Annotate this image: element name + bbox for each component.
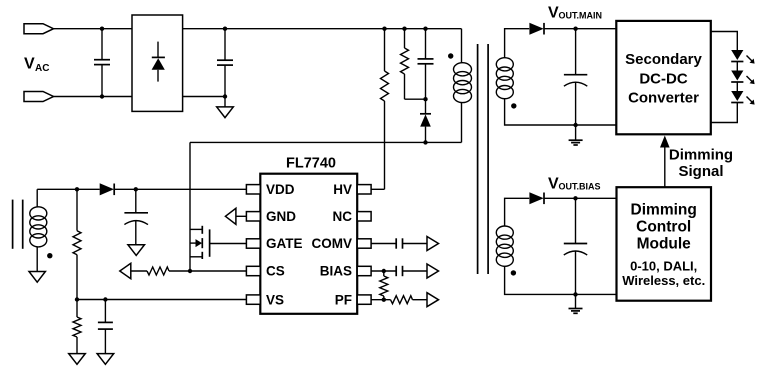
- svg-text:V: V: [24, 56, 35, 73]
- pin VS: [246, 295, 260, 304]
- node: aux phase dot: [47, 253, 52, 258]
- transformer T1 primary winding: [454, 29, 472, 143]
- terminal arrow CS (current sense input): [120, 263, 131, 278]
- wire: rectified bottom rail: [183, 96, 225, 98]
- pin HV: [357, 185, 371, 194]
- input terminal bottom: [24, 92, 54, 102]
- svg-text:VDD: VDD: [266, 182, 295, 197]
- capacitor C4 (VDD): [124, 189, 148, 244]
- ground (main output, earth): [569, 125, 583, 145]
- resistor R6 (BIAS to PF): [380, 271, 388, 300]
- pin VDD: [246, 185, 260, 194]
- wire: aux to VDD: [37, 188, 99, 190]
- wire: LED string top: [711, 32, 738, 51]
- wire bottom input: [54, 96, 133, 98]
- node: snubber RC junction: [423, 97, 427, 101]
- node: VDD cap junction: [134, 187, 138, 191]
- svg-text:Converter: Converter: [628, 90, 699, 107]
- svg-text:DC-DC: DC-DC: [639, 71, 687, 88]
- svg-text:Dimming: Dimming: [631, 202, 697, 219]
- svg-text:Dimming: Dimming: [669, 147, 733, 164]
- node: VS cap junction: [103, 297, 107, 301]
- box: Secondary DC-DC Converter: [616, 21, 711, 134]
- ground (bus): [217, 97, 234, 118]
- pin labels right: [312, 182, 353, 307]
- svg-text:AC: AC: [35, 63, 49, 74]
- svg-text:Secondary: Secondary: [625, 51, 702, 68]
- pin NC: [357, 212, 371, 221]
- input terminal top: [24, 24, 54, 34]
- svg-text:Signal: Signal: [678, 163, 723, 180]
- wire: HV to R1: [371, 188, 384, 190]
- ground (bias output, earth): [569, 294, 583, 313]
- LED D5: [731, 71, 754, 85]
- LED D6: [731, 91, 754, 105]
- svg-text:Wireless, etc.: Wireless, etc.: [622, 273, 705, 288]
- node: main output bottom junction: [573, 123, 577, 127]
- node: bus cap bottom: [223, 94, 227, 98]
- svg-text:Module: Module: [637, 236, 692, 253]
- capacitor C8 (main output): [564, 29, 587, 125]
- bridge rectifier BR1: [132, 15, 183, 111]
- pin GND: [246, 212, 260, 221]
- label VOUT.BIAS: [548, 175, 601, 192]
- capacitor C2 (bus): [217, 29, 233, 97]
- diode D1 (snubber): [420, 99, 431, 142]
- transformer T1 bias winding: [496, 198, 617, 294]
- diode D2 (VDD rectifier): [100, 183, 247, 195]
- pin BIAS: [357, 266, 371, 275]
- label Dimming Signal: [669, 147, 733, 181]
- svg-text:V: V: [548, 4, 559, 21]
- capacitor C1 (input filter): [94, 29, 110, 97]
- resistor R3 (divider upper): [73, 189, 81, 299]
- svg-text:BIAS: BIAS: [320, 264, 352, 279]
- pin COMV: [357, 239, 371, 248]
- node: R2 top: [402, 27, 406, 31]
- capacitor C3 (snubber): [418, 29, 434, 100]
- wire top input: [54, 28, 133, 30]
- node: PF junction: [382, 298, 386, 302]
- svg-text:CS: CS: [266, 264, 285, 279]
- resistor R2 (snubber): [401, 29, 426, 100]
- capacitor C6 (COMV): [371, 238, 427, 248]
- node: C3 top: [423, 27, 427, 31]
- terminal arrow BIAS: [427, 264, 439, 278]
- svg-text:VS: VS: [266, 292, 284, 307]
- node: R1 top: [382, 27, 386, 31]
- node: primary phase dot: [448, 53, 453, 58]
- resistor R5 (CS): [131, 267, 247, 275]
- ground (VS cap): [97, 354, 114, 365]
- diode D3 (main output): [529, 23, 616, 35]
- diode D7 (bias output): [529, 192, 617, 204]
- transformer T1 secondary main winding: [496, 29, 616, 125]
- svg-text:FL7740: FL7740: [286, 156, 336, 172]
- pin GATE: [246, 239, 260, 248]
- ground (divider): [69, 354, 86, 365]
- svg-text:PF: PF: [335, 292, 352, 307]
- resistor R1 (HV startup): [381, 29, 389, 190]
- node: C1 top junction: [100, 27, 104, 31]
- pin CS: [246, 266, 260, 275]
- node: secondary main phase dot: [511, 103, 516, 108]
- node: main output junction: [573, 27, 577, 31]
- capacitor C5 (VS filter): [98, 300, 113, 354]
- transformer T1 core: [478, 44, 489, 274]
- wire: [736, 82, 738, 91]
- svg-text:HV: HV: [333, 182, 352, 197]
- transformer aux core: [13, 200, 23, 249]
- node: bias output junction: [573, 196, 577, 200]
- svg-text:0-10, DALI,: 0-10, DALI,: [630, 259, 697, 274]
- node: CS / source junction: [188, 269, 192, 273]
- LED D4: [731, 50, 754, 64]
- dimming signal arrow: [660, 136, 670, 188]
- svg-text:NC: NC: [333, 209, 353, 224]
- wire: LED string bottom: [711, 103, 738, 123]
- ground (VDD cap): [128, 245, 145, 256]
- ground (aux winding): [29, 272, 45, 283]
- node: VS tap: [75, 297, 79, 301]
- node: drain rail / D1 junction: [423, 140, 427, 144]
- svg-text:GATE: GATE: [266, 236, 303, 251]
- capacitor C9 (bias output): [564, 198, 587, 294]
- svg-text:V: V: [548, 175, 559, 192]
- pin labels left: [266, 182, 303, 307]
- pin PF: [357, 295, 371, 304]
- node: BIAS junction: [382, 269, 386, 273]
- node: divider tap top: [75, 187, 79, 191]
- op IC U1 FL7740: [260, 174, 357, 314]
- resistor R4 (divider lower): [73, 300, 81, 354]
- terminal arrow PF: [427, 293, 439, 307]
- node: C1 bottom junction: [100, 94, 104, 98]
- svg-text:OUT.BIAS: OUT.BIAS: [559, 181, 601, 191]
- transformer aux winding: [30, 189, 47, 271]
- label VAC: [24, 56, 49, 74]
- terminal arrow COMV: [427, 237, 439, 251]
- wire: [736, 62, 738, 71]
- wire: rectified top rail: [183, 28, 462, 30]
- resistor R7 (PF): [371, 296, 427, 304]
- box: Dimming Control Module: [617, 187, 712, 301]
- svg-text:COMV: COMV: [312, 236, 353, 251]
- node: bus cap top: [223, 27, 227, 31]
- wire: drain rail: [190, 141, 462, 143]
- node: bias phase dot: [511, 270, 516, 275]
- label VOUT.MAIN: [548, 4, 602, 21]
- svg-text:Control: Control: [636, 219, 691, 236]
- node: bias bottom junction: [573, 292, 577, 296]
- svg-text:GND: GND: [266, 209, 296, 224]
- svg-text:OUT.MAIN: OUT.MAIN: [559, 10, 603, 20]
- transistor Q1 (power MOSFET): [190, 142, 246, 271]
- terminal arrow GND: [225, 208, 246, 224]
- capacitor C7 (BIAS): [371, 266, 427, 276]
- wire: VS line: [77, 299, 246, 301]
